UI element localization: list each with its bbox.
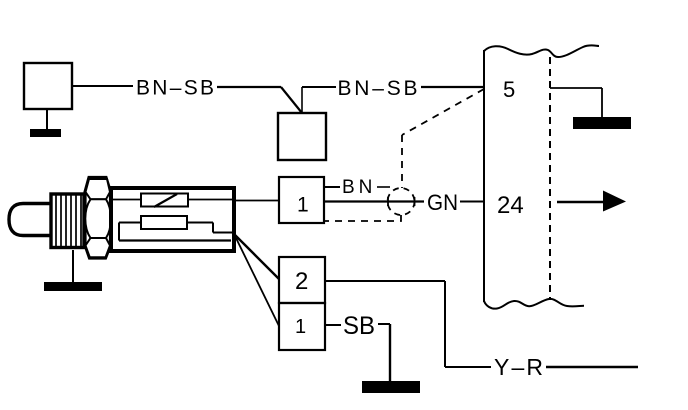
hex nut top facet — [86, 179, 111, 199]
dashed right edge — [549, 57, 551, 300]
temperature sensor B1 — [9, 178, 235, 259]
wire BN-SB (junction box to ECU pin 5) — [302, 87, 484, 113]
svg-text:24: 24 — [497, 192, 524, 219]
connector box pin 1 (lower, SB) — [279, 303, 325, 350]
dashed harness routing (pin1 to ECU pin5 area) — [324, 89, 484, 221]
wire pin 5 to ground — [550, 88, 602, 118]
wire GN (pin 1 to ECU pin 24) — [324, 200, 484, 202]
sensor threaded section — [51, 194, 84, 248]
stub wire lower pin 1 to SB — [325, 324, 341, 326]
hex nut middle facet — [85, 199, 111, 238]
svg-text:SB: SB — [343, 312, 375, 340]
hex nut bottom facet — [86, 238, 111, 257]
wavy bottom edge — [484, 299, 584, 309]
svg-text:Y–R: Y–R — [494, 354, 543, 380]
wire sensor to connector pin 1 — [235, 200, 279, 202]
thermistor R (top, variable) — [113, 194, 235, 208]
sensor threads — [56, 195, 81, 246]
svg-text:BN: BN — [342, 177, 376, 198]
wire sensor to pin 2 (diagonal) — [233, 233, 279, 279]
ground (right of ECU pin 5) — [573, 117, 631, 129]
wavy top edge — [484, 45, 599, 57]
svg-text:GN: GN — [427, 190, 458, 215]
sensor hex nut — [85, 178, 111, 259]
resistor (bottom) — [119, 216, 232, 241]
svg-text:BN–SB: BN–SB — [338, 77, 418, 100]
connector box pin 2 — [279, 257, 325, 303]
left edge — [483, 50, 485, 302]
relay box K1 (top-left component box) — [24, 63, 72, 109]
ground (below SB) — [362, 381, 420, 393]
svg-text:1: 1 — [295, 316, 306, 338]
sensor bulb tip — [9, 204, 52, 236]
stub wire after BN — [377, 186, 390, 188]
svg-text:2: 2 — [295, 268, 308, 295]
wire sensor to lower pin 1 (diagonal) — [236, 238, 279, 326]
arrow output from pin 24 — [557, 191, 626, 212]
wire BN-SB (top-left box to junction box) — [72, 86, 302, 113]
connector symbol (dashed circle on GN wire) — [388, 188, 415, 215]
sensor body — [111, 188, 234, 251]
svg-text:BN–SB: BN–SB — [136, 77, 214, 100]
ground (below sensor) — [44, 250, 102, 291]
ECU control unit outline (torn box) — [484, 45, 599, 308]
connector box pin 1 (BN/GN) — [279, 177, 324, 223]
ground (below top-left box) — [30, 109, 61, 137]
wire pin 2 to Y-R — [325, 281, 491, 367]
wire Y-R continuation — [546, 366, 638, 368]
junction box (unlabeled connector) — [278, 113, 326, 160]
stub wire to BN label — [324, 186, 340, 188]
svg-text:5: 5 — [503, 77, 515, 102]
svg-text:1: 1 — [297, 194, 309, 217]
wire SB to ground — [378, 324, 390, 382]
